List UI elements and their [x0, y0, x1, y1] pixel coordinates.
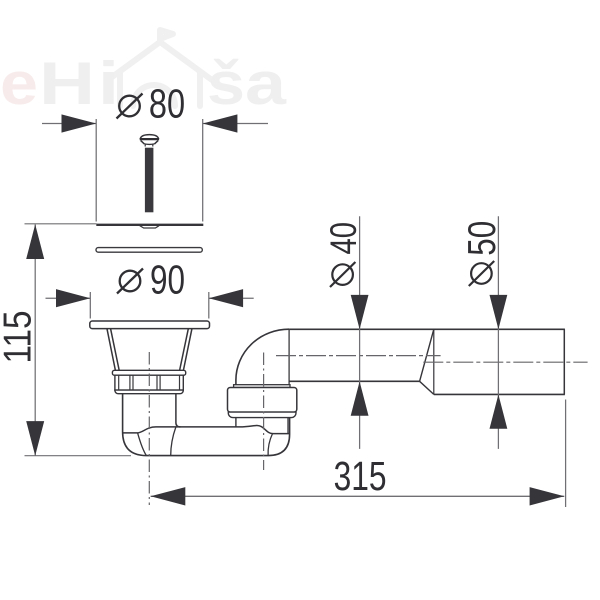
- watermark eHisa logo: [0, 30, 287, 117]
- taper diagonal lower: [420, 381, 434, 394]
- extension line 115 bottom: [25, 455, 132, 457]
- centerline drain vertical: [148, 352, 150, 505]
- diameter symbol d90: [117, 269, 143, 294]
- dimension d80: [42, 80, 268, 221]
- svg-text:315: 315: [334, 453, 387, 499]
- diameter symbol d80: [117, 94, 143, 119]
- arrow 115 bottom: [26, 421, 44, 456]
- extension line 115 top: [25, 223, 97, 225]
- svg-text:e: e: [0, 50, 38, 117]
- extension line 315 right: [565, 400, 567, 508]
- locking nut: [112, 370, 185, 393]
- trap top contour: [123, 425, 289, 433]
- arrow d80 right: [203, 114, 238, 132]
- dimension d40: [322, 216, 369, 449]
- gasket: [96, 248, 202, 253]
- svg-text:115: 115: [0, 311, 40, 364]
- svg-text:i: i: [98, 50, 119, 117]
- centerline pipe d40: [276, 355, 441, 357]
- svg-text:40: 40: [322, 222, 364, 255]
- horizontal pipe d40: [289, 329, 565, 394]
- diameter symbol d50: [469, 261, 494, 286]
- union stub left wall: [235, 418, 237, 427]
- trap body outline: [123, 394, 290, 456]
- svg-text:80: 80: [149, 80, 185, 126]
- svg-text:90: 90: [150, 256, 185, 302]
- funnel body: [107, 329, 192, 371]
- trap weir curve: [171, 427, 176, 456]
- screw head: [140, 135, 158, 139]
- centerlines: [149, 352, 587, 505]
- svg-text:50: 50: [461, 221, 504, 256]
- arrow 315 right: [530, 487, 565, 505]
- dimension 115: [0, 224, 131, 456]
- arrow d50 bottom: [490, 395, 508, 429]
- taper diagonal upper: [420, 329, 434, 381]
- trap inner curve left: [138, 433, 147, 456]
- elbow joint line: [288, 329, 290, 384]
- arrow 315 left: [151, 487, 186, 505]
- diameter symbol d40: [330, 262, 355, 287]
- trap inner curve right: [268, 434, 272, 456]
- arrow d90 right: [209, 289, 243, 307]
- arrow d90 left: [56, 289, 90, 307]
- arrow 115 top: [26, 224, 44, 259]
- svg-text:a: a: [245, 50, 287, 117]
- elbow outlet: [236, 329, 289, 385]
- screw: [140, 135, 159, 213]
- screw shaft: [145, 148, 154, 213]
- pipe d50 bottom edge: [434, 393, 565, 395]
- centerline union vertical: [263, 353, 265, 471]
- extension line d80 right: [202, 119, 204, 222]
- dimension line d80: [42, 119, 268, 222]
- dimension d90: [46, 256, 254, 318]
- extension line d90 left: [89, 292, 91, 319]
- extension line d80 left: [95, 119, 97, 222]
- drain flange: [90, 321, 210, 329]
- arrow d40 top: [351, 295, 369, 329]
- arrow d50 top: [490, 295, 508, 329]
- dimension d50: [461, 216, 507, 449]
- down pipe inner wall: [176, 394, 181, 427]
- taper joint line: [433, 329, 435, 394]
- pipe end cap: [563, 329, 565, 394]
- cover plate: [96, 225, 203, 228]
- svg-text:H: H: [39, 50, 95, 117]
- arrow d40 bottom: [351, 381, 369, 415]
- centerline pipe d50: [423, 361, 587, 363]
- arrow d80 left: [62, 114, 97, 132]
- union stub right wall: [287, 418, 289, 434]
- extension line d90 right: [208, 292, 210, 319]
- union nut: [228, 385, 297, 418]
- dimension 315: [151, 400, 566, 508]
- svg-text:š: š: [207, 50, 245, 117]
